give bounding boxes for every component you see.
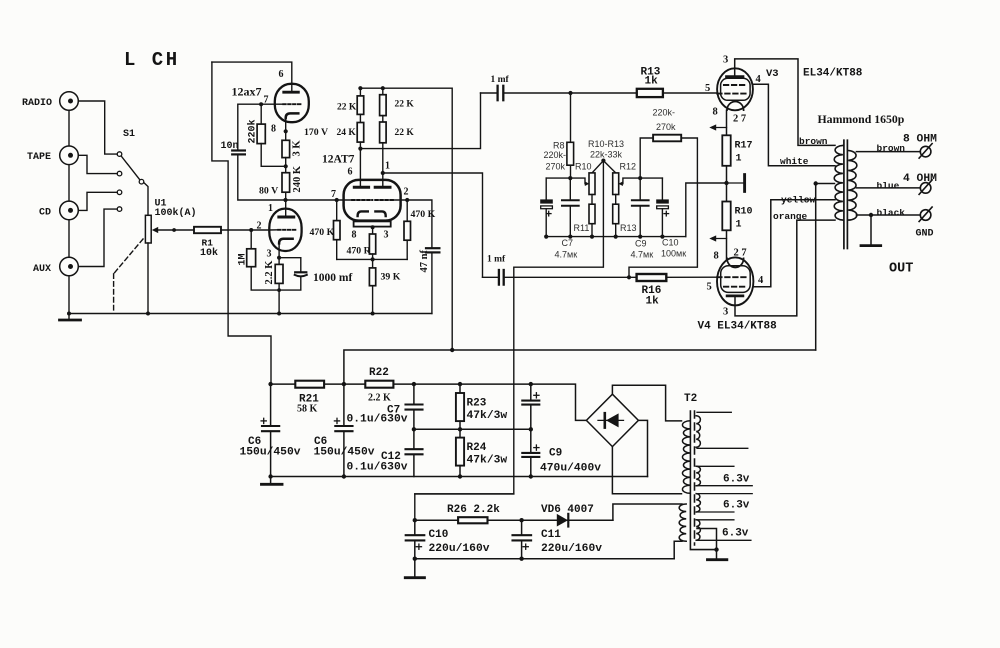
grid V3 bbox=[724, 84, 747, 86]
plate V4 bbox=[727, 295, 743, 298]
ground heater bbox=[708, 558, 727, 561]
screen V4 bbox=[724, 286, 747, 288]
electrolytic C9 470u/400v (upper) bbox=[530, 384, 532, 400]
svg-text:C11: C11 bbox=[541, 529, 561, 541]
resistor 1M bbox=[250, 230, 252, 249]
svg-text:1 mf: 1 mf bbox=[487, 255, 506, 265]
svg-text:1000 mf: 1000 mf bbox=[313, 272, 352, 284]
node 220k top bbox=[259, 102, 263, 106]
resistor 22 K (right chain bottom) bbox=[382, 116, 384, 122]
resistor R23 47k/3w bbox=[459, 384, 461, 393]
svg-text:47k/3w: 47k/3w bbox=[467, 455, 508, 467]
svg-text:C10: C10 bbox=[429, 529, 449, 541]
svg-text:3: 3 bbox=[267, 249, 272, 260]
resistor 220k bbox=[260, 104, 262, 124]
wire bridge plus top bbox=[612, 385, 681, 421]
wire cathode V1b down bbox=[278, 243, 280, 264]
svg-text:1k: 1k bbox=[645, 76, 659, 88]
wire RADIO to switch bbox=[69, 101, 117, 154]
svg-text:6.3v: 6.3v bbox=[722, 528, 749, 540]
wire B+ rail bbox=[271, 384, 587, 420]
transformer T2 core shield bbox=[690, 411, 717, 550]
electrolytic C6 150u/450v (second) bbox=[343, 384, 345, 426]
wire 470K left bottom bbox=[336, 240, 338, 260]
svg-text:white: white bbox=[780, 156, 809, 167]
svg-text:2: 2 bbox=[257, 221, 262, 232]
wire bias rail right bbox=[621, 178, 662, 184]
wire cap to R16 bbox=[504, 276, 637, 278]
plate 12AT7 right bbox=[375, 186, 390, 189]
wire 1000mf bottom bbox=[279, 277, 301, 291]
potentiometer U1 100k(A) bbox=[145, 215, 151, 243]
terminal 8 OHM bbox=[919, 144, 932, 159]
transformer T2 bias winding bbox=[679, 504, 686, 541]
capacitor 10n bbox=[232, 149, 245, 151]
electrolytic C10 100mk bbox=[661, 178, 663, 199]
electrolytic C6 150u/450v (first) bbox=[270, 384, 272, 426]
resistor R16 1k bbox=[637, 274, 667, 281]
svg-text:CD: CD bbox=[39, 208, 51, 219]
svg-text:black: black bbox=[877, 208, 906, 219]
svg-text:R26 2.2k: R26 2.2k bbox=[447, 504, 500, 516]
terminal 4 OHM bbox=[919, 180, 932, 195]
wire bridge AC bottom bbox=[612, 447, 681, 494]
screen V3 bbox=[717, 93, 746, 95]
svg-text:24 K: 24 K bbox=[337, 128, 357, 138]
wire bias feed from pot mid node bbox=[415, 161, 604, 521]
node V1b anode / interstage bbox=[283, 198, 287, 202]
node V1b grid / 1M top bbox=[249, 228, 253, 232]
resistor 470 R bbox=[369, 234, 375, 254]
transformer OT primary winding bbox=[834, 145, 843, 220]
resistor R10 1 (cathode V4) bbox=[722, 202, 730, 231]
wire PSU bottom rail bbox=[271, 476, 648, 478]
svg-text:brown: brown bbox=[799, 136, 828, 147]
wire bias rail left bbox=[546, 178, 587, 184]
node left grid / 470K bbox=[335, 198, 339, 202]
node bias mid (pot top) bbox=[601, 159, 605, 163]
beam structure V3 bbox=[721, 78, 751, 100]
svg-text:10k: 10k bbox=[200, 247, 218, 259]
heater winding 1 bbox=[696, 416, 700, 448]
svg-text:1k: 1k bbox=[646, 296, 660, 308]
resistor R13 (bias divider) bbox=[615, 195, 617, 205]
svg-text:C9: C9 bbox=[635, 239, 647, 249]
wire left anode lead bbox=[359, 142, 361, 187]
wire R26 rail bbox=[415, 519, 613, 521]
wire V3 cathode to R17 bbox=[726, 110, 728, 135]
wire secondary 4 ohm tap bbox=[856, 187, 920, 189]
node C7 column top bbox=[412, 382, 416, 386]
electrolytic C9 470u/400v (lower) bbox=[522, 452, 539, 454]
wire cathode V1a down bbox=[285, 118, 287, 140]
svg-text:470 R: 470 R bbox=[347, 245, 372, 256]
wire 1M bottom bbox=[251, 267, 279, 290]
node C11 top bbox=[519, 518, 523, 522]
svg-text:8: 8 bbox=[714, 251, 719, 262]
resistor R8 220k-270k (grid bias V3) bbox=[570, 93, 572, 142]
electrolytic C11 220u/160v bbox=[521, 520, 523, 535]
svg-text:6: 6 bbox=[279, 69, 284, 80]
svg-text:4.7мк: 4.7мк bbox=[555, 250, 578, 260]
wire slant to R10 bbox=[592, 161, 603, 173]
jack RADIO bbox=[60, 92, 79, 111]
wire pot to ground bbox=[147, 243, 149, 314]
resistor R22 2.2 K bbox=[365, 381, 393, 388]
svg-text:220u/160v: 220u/160v bbox=[429, 543, 490, 555]
svg-text:8: 8 bbox=[713, 107, 718, 118]
svg-text:22 K: 22 K bbox=[395, 128, 415, 138]
svg-text:C9: C9 bbox=[549, 448, 562, 460]
node right anode bbox=[381, 171, 385, 175]
wire bias rail to cathode sense node bbox=[686, 183, 726, 237]
wire bias feed rail bbox=[415, 493, 514, 495]
cathode 12AT7 right bbox=[375, 211, 385, 216]
svg-text:R24: R24 bbox=[467, 442, 487, 454]
svg-text:8: 8 bbox=[352, 230, 357, 241]
tube V1b 12ax7 (second half) bbox=[269, 209, 301, 251]
capacitor 1 mf (top coupling) bbox=[496, 86, 498, 100]
wire switch pivot to pot bbox=[144, 183, 148, 216]
grid 12AT7 left bbox=[352, 199, 372, 201]
svg-text:220k-: 220k- bbox=[653, 108, 676, 118]
svg-text:220k-: 220k- bbox=[544, 150, 567, 160]
anode supply line from V1a (long vertical) bbox=[212, 62, 271, 384]
wire 240K bottom to stage node bbox=[285, 192, 287, 200]
wire input ground bus bbox=[68, 101, 70, 314]
node C6a top bbox=[268, 382, 272, 386]
node bias rail left bbox=[568, 176, 572, 180]
potentiometer R10 bbox=[589, 173, 595, 195]
svg-text:220u/160v: 220u/160v bbox=[541, 543, 602, 555]
node C9 mid bbox=[529, 427, 533, 431]
svg-text:R13: R13 bbox=[620, 223, 637, 233]
svg-text:1: 1 bbox=[736, 220, 742, 231]
svg-text:R23: R23 bbox=[467, 398, 487, 410]
wire 220k bottom bbox=[261, 144, 286, 167]
svg-text:8 OHM: 8 OHM bbox=[903, 134, 937, 146]
capacitor C12 0.1u/630v bbox=[406, 448, 423, 450]
node cathode bar bbox=[372, 227, 374, 234]
wire R17 to node bbox=[726, 166, 728, 202]
svg-text:brown: brown bbox=[877, 143, 906, 154]
node cathode sense bbox=[724, 181, 728, 185]
grid V1b bbox=[278, 229, 296, 231]
wire 470R bottom bbox=[372, 254, 374, 268]
ground main filter bbox=[270, 477, 272, 484]
beam structure V4 bbox=[721, 266, 751, 293]
svg-text:220k: 220k bbox=[247, 119, 259, 143]
svg-text:R11: R11 bbox=[574, 223, 590, 233]
node C6a bottom / ground bbox=[268, 474, 272, 478]
svg-text:V3: V3 bbox=[766, 68, 779, 80]
resistor 22 K (right chain top) bbox=[382, 88, 384, 95]
svg-text:0.1u/630v: 0.1u/630v bbox=[347, 462, 408, 474]
svg-text:240 K: 240 K bbox=[292, 165, 303, 192]
wire 270k left end to bias rail right bbox=[640, 138, 653, 178]
ground input bbox=[68, 314, 70, 320]
svg-text:47 nf: 47 nf bbox=[419, 250, 430, 273]
svg-text:1 mf: 1 mf bbox=[491, 75, 510, 85]
tube 12AT7 envelope bbox=[344, 180, 401, 221]
tube V3 EL34/KT88 envelope bbox=[717, 68, 753, 110]
current arrow V4 bbox=[712, 238, 727, 240]
svg-text:R12: R12 bbox=[620, 162, 637, 172]
wire OT center tap to B+ bbox=[816, 184, 835, 351]
wire cathode return rail bbox=[337, 258, 408, 260]
svg-text:39 K: 39 K bbox=[381, 272, 401, 283]
svg-text:270k: 270k bbox=[546, 162, 566, 172]
svg-text:100мк: 100мк bbox=[661, 249, 686, 259]
svg-text:2.2 K: 2.2 K bbox=[368, 393, 391, 404]
test point terminal bbox=[727, 182, 744, 184]
node left anode / coupling bbox=[358, 147, 362, 151]
wire TAPE to switch bbox=[69, 155, 117, 173]
wiper arrow R10 bbox=[585, 181, 590, 186]
grid 12AT7 right bbox=[375, 199, 394, 201]
cathode 12AT7 left bbox=[358, 211, 368, 216]
svg-text:Hammond 1650p: Hammond 1650p bbox=[818, 112, 905, 126]
wire 12AT7 plate supply top bbox=[360, 88, 452, 350]
transformer OT core bbox=[843, 140, 845, 248]
svg-text:0.1u/630v: 0.1u/630v bbox=[347, 414, 408, 426]
svg-text:blue: blue bbox=[877, 181, 900, 192]
grid V1a bbox=[283, 103, 301, 105]
capacitor C9 4.7mk bbox=[639, 178, 641, 200]
svg-text:3: 3 bbox=[723, 55, 728, 66]
svg-text:T2: T2 bbox=[684, 393, 697, 405]
node 3K bottom bbox=[285, 158, 287, 173]
node right grid / 470K bbox=[405, 198, 409, 202]
wire to top coupling cap bbox=[360, 93, 480, 149]
wire V1a grid to 10n bbox=[238, 104, 283, 150]
wire slant to R12 bbox=[603, 161, 615, 173]
wire heater tap to ground bbox=[697, 529, 717, 560]
wire secondary 0 ohm tap bbox=[856, 214, 920, 216]
resistor 470 K (right) bbox=[406, 200, 408, 221]
svg-text:4 OHM: 4 OHM bbox=[903, 173, 937, 185]
wire R13 to V3 grid bbox=[663, 92, 718, 94]
node secondary ground bbox=[869, 213, 873, 217]
svg-text:R10: R10 bbox=[575, 162, 592, 172]
svg-text:GND: GND bbox=[916, 229, 934, 240]
node R23 top bbox=[458, 382, 462, 386]
svg-text:4: 4 bbox=[758, 275, 764, 286]
svg-text:4: 4 bbox=[756, 74, 762, 85]
svg-text:2.2 K: 2.2 K bbox=[264, 260, 275, 285]
wire 2.2K bottom to ground bbox=[278, 283, 280, 313]
svg-text:6.3v: 6.3v bbox=[723, 474, 750, 486]
node cathode return rail bbox=[371, 257, 375, 261]
node R23/R24 bbox=[458, 427, 462, 431]
node V1b cathode bbox=[277, 256, 281, 260]
svg-text:L CH: L CH bbox=[124, 49, 180, 71]
svg-text:AUX: AUX bbox=[33, 264, 51, 275]
diode VD6 4007 bbox=[557, 514, 568, 527]
capacitor C7 0.1u/630v bbox=[413, 384, 415, 404]
node C9 top bbox=[529, 382, 533, 386]
svg-text:22 K: 22 K bbox=[395, 100, 415, 110]
wire to bottom coupling cap bbox=[383, 173, 483, 277]
svg-text:1M: 1M bbox=[238, 253, 249, 265]
cathode V4 bbox=[727, 258, 744, 267]
svg-text:RADIO: RADIO bbox=[22, 98, 52, 109]
plate V1b bbox=[279, 216, 294, 219]
svg-text:OUT: OUT bbox=[889, 262, 913, 277]
svg-text:150u/450v: 150u/450v bbox=[314, 447, 375, 459]
wire 47nf to ground rail bbox=[431, 252, 433, 313]
wire 270k right end to R16 node bbox=[629, 138, 697, 277]
wire 10n bottom to V1b anode node bbox=[238, 154, 286, 200]
wire bottom anode line to cap bbox=[483, 276, 499, 278]
wire R16 to V4 grid bbox=[666, 276, 717, 278]
pin 4 V4 / wire screen to yellow bbox=[753, 200, 835, 287]
svg-text:S1: S1 bbox=[123, 129, 135, 140]
resistor 22 K (left chain top) bbox=[359, 88, 361, 96]
tube V4 EL34/KT88 envelope bbox=[717, 257, 753, 305]
potentiometer R12 bbox=[613, 173, 619, 195]
node V1a cathode bbox=[284, 129, 288, 133]
svg-text:R17: R17 bbox=[735, 141, 753, 152]
svg-text:22k-33k: 22k-33k bbox=[590, 150, 623, 160]
svg-text:150u/450v: 150u/450v bbox=[240, 447, 301, 459]
wire V4 anode to orange bbox=[735, 220, 835, 316]
svg-text:R10-R13: R10-R13 bbox=[588, 139, 624, 149]
svg-text:orange: orange bbox=[773, 211, 808, 222]
resistor 39 K bbox=[369, 268, 375, 286]
capacitor 1 mf (bottom coupling) bbox=[498, 270, 500, 285]
resistor 24 K (left chain bottom) bbox=[359, 114, 361, 122]
current arrow V3 bbox=[712, 127, 727, 129]
svg-text:R1: R1 bbox=[202, 238, 214, 249]
node C10 top bbox=[413, 518, 417, 522]
svg-text:58 K: 58 K bbox=[297, 404, 318, 415]
svg-text:1: 1 bbox=[385, 161, 390, 172]
svg-text:R22: R22 bbox=[369, 367, 389, 379]
wire bias winding top to VD6 bbox=[613, 504, 682, 520]
transformer T2 core bbox=[694, 411, 696, 545]
svg-text:1: 1 bbox=[268, 203, 273, 214]
wire mid rail bbox=[414, 428, 531, 430]
svg-text:R8: R8 bbox=[553, 141, 565, 151]
svg-text:4.7мк: 4.7мк bbox=[631, 250, 654, 260]
wire bias supply bottom rail bbox=[415, 558, 674, 560]
transformer T2 HV winding bbox=[682, 421, 690, 494]
svg-text:6.3v: 6.3v bbox=[723, 500, 750, 512]
svg-text:C7: C7 bbox=[562, 238, 574, 248]
resistor R17 1 bbox=[722, 135, 730, 166]
svg-text:TAPE: TAPE bbox=[27, 152, 51, 163]
svg-text:VD6 4007: VD6 4007 bbox=[541, 504, 594, 516]
svg-text:2 7: 2 7 bbox=[733, 114, 746, 125]
svg-text:C10: C10 bbox=[662, 238, 679, 248]
svg-text:6: 6 bbox=[348, 167, 353, 178]
svg-text:3: 3 bbox=[384, 230, 389, 241]
svg-text:470 K: 470 K bbox=[310, 227, 335, 238]
svg-text:47k/3w: 47k/3w bbox=[467, 410, 508, 422]
wire R10 to V4 cathode bbox=[726, 230, 728, 259]
wire 470K right bottom bbox=[406, 240, 408, 259]
transformer OT secondary winding bbox=[848, 151, 857, 221]
wire B+ distribution bbox=[344, 350, 816, 384]
jack TAPE bbox=[60, 146, 79, 165]
resistor 3K bbox=[282, 140, 290, 157]
heater winding 4 (6.3v) bbox=[696, 520, 700, 541]
svg-text:2: 2 bbox=[404, 187, 409, 198]
svg-text:470 K: 470 K bbox=[411, 209, 436, 220]
svg-text:3 K: 3 K bbox=[292, 140, 303, 157]
plate 12AT7 left bbox=[354, 186, 368, 189]
cathode V1a bbox=[286, 113, 299, 118]
wire top grid line to cap bbox=[481, 92, 498, 94]
wire V1a anode top bbox=[212, 62, 292, 84]
capacitor 47 nf bbox=[426, 247, 439, 249]
svg-text:470u/400v: 470u/400v bbox=[540, 463, 601, 475]
wiper arrow R12 bbox=[618, 181, 623, 186]
wire bridge minus bbox=[638, 420, 647, 476]
cathode common bar 12AT7 bbox=[354, 221, 391, 226]
svg-text:1: 1 bbox=[736, 154, 742, 165]
node mid rail left bbox=[412, 427, 416, 431]
resistor R11 bbox=[591, 195, 593, 205]
wire R1 to V1b grid bbox=[221, 229, 270, 231]
capacitor C7 4.7mk bbox=[569, 178, 571, 200]
resistor 2.2K cathode bbox=[275, 264, 283, 283]
resistor 470 K (left) bbox=[336, 200, 338, 221]
node R21/R22 junction bbox=[342, 382, 346, 386]
svg-text:12AT7: 12AT7 bbox=[322, 154, 355, 166]
node R8 tap bbox=[568, 91, 572, 95]
wire AUX to switch bbox=[69, 209, 117, 266]
resistor 240K bbox=[282, 173, 290, 193]
wire cathode to 1000mf bbox=[279, 258, 301, 272]
jack AUX bbox=[60, 257, 79, 276]
heater winding 2 (6.3v) bbox=[696, 466, 700, 485]
ground secondary bbox=[870, 215, 872, 245]
svg-text:3: 3 bbox=[723, 307, 728, 318]
wire pot wiper bbox=[155, 229, 194, 231]
svg-text:270k: 270k bbox=[656, 122, 676, 132]
wire secondary 8 ohm tap bbox=[856, 151, 920, 153]
svg-text:7: 7 bbox=[331, 189, 336, 200]
wire 39K to ground bbox=[372, 286, 374, 314]
svg-text:V4 EL34/KT88: V4 EL34/KT88 bbox=[698, 321, 778, 333]
pin 4 V3 / wire screen to white bbox=[753, 84, 835, 166]
plate V3 bbox=[727, 75, 744, 78]
node bias rail right bbox=[638, 176, 642, 180]
resistor R1 10k bbox=[194, 227, 221, 233]
wire CD to switch bbox=[69, 192, 117, 210]
svg-text:170 V: 170 V bbox=[304, 127, 328, 138]
svg-text:EL34/KT88: EL34/KT88 bbox=[803, 68, 863, 80]
tube V1a 12ax7 (first half) bbox=[275, 84, 309, 122]
wire left ground rail bbox=[69, 313, 432, 315]
svg-text:R10: R10 bbox=[735, 207, 753, 218]
resistor R26 2.2k bbox=[458, 517, 487, 523]
svg-text:22 K: 22 K bbox=[337, 103, 357, 113]
wire interstage to 12AT7 grid pin7 bbox=[286, 199, 353, 201]
svg-text:5: 5 bbox=[707, 282, 712, 293]
resistor R13 1k bbox=[637, 89, 663, 97]
plate V1a bbox=[284, 91, 299, 94]
node B+ driver feed bbox=[450, 348, 454, 352]
heater winding 3 (6.3v) bbox=[696, 494, 700, 512]
node bias feed to R16 bbox=[627, 275, 631, 279]
resistor R21 58 K bbox=[295, 381, 324, 388]
wire bias network bottom rail bbox=[546, 236, 686, 238]
capacitor 1000mf bbox=[295, 271, 306, 273]
wire V3 anode to brown bbox=[735, 59, 835, 145]
